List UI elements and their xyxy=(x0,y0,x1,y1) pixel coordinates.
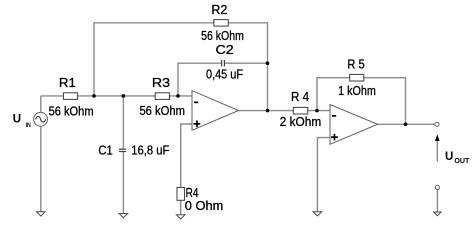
svg-text:56 kOhm: 56 kOhm xyxy=(49,104,94,119)
svg-text:56 kOhm: 56 kOhm xyxy=(139,103,185,118)
svg-text:C2: C2 xyxy=(216,42,234,57)
svg-text:OUT: OUT xyxy=(454,158,470,165)
svg-text:U: U xyxy=(13,113,21,125)
svg-text:R 5: R 5 xyxy=(347,56,364,71)
svg-text:0 Ohm: 0 Ohm xyxy=(185,198,224,213)
svg-text:0,45 uF: 0,45 uF xyxy=(206,66,243,81)
svg-text:R 4: R 4 xyxy=(291,89,309,104)
svg-text:2 kOhm: 2 kOhm xyxy=(280,114,322,129)
svg-text:R3: R3 xyxy=(152,75,170,90)
svg-text:56 kOhm: 56 kOhm xyxy=(201,28,244,43)
svg-text:R1: R1 xyxy=(59,75,76,90)
svg-text:U: U xyxy=(445,151,453,163)
svg-text:16,8 uF: 16,8 uF xyxy=(131,142,169,157)
svg-text:R2: R2 xyxy=(211,2,227,17)
svg-text:IN: IN xyxy=(26,122,32,129)
svg-text:1 kOhm: 1 kOhm xyxy=(338,83,376,98)
svg-text:C1: C1 xyxy=(98,142,112,157)
